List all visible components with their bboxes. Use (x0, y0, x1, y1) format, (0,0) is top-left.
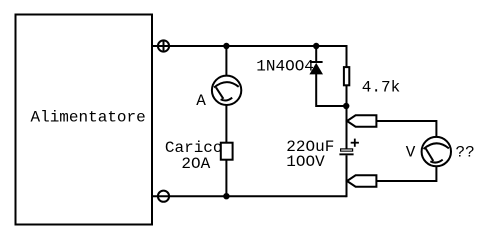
svg-text:1N4OO4: 1N4OO4 (256, 58, 314, 76)
connector tag bottom (to voltmeter -) (347, 175, 376, 186)
wire: bottom rail from - terminal to right riser (152, 195, 347, 197)
wire: ammeter to load (225, 105, 227, 143)
wire: ammeter branch top (rail to meter) (225, 46, 227, 76)
wire: diode branch from rail to cathode (315, 46, 317, 62)
node junction bottom rail / load branch (223, 193, 229, 199)
svg-text:1OOV: 1OOV (286, 153, 325, 171)
svg-text:4.7k: 4.7k (362, 79, 400, 97)
wire: bottom tag to voltmeter (376, 166, 436, 181)
diode D1 1N4004 triangle (anode below, pointing up) (309, 63, 323, 75)
terminal - (minus output of supply) (158, 191, 169, 202)
plus terminal vertical bar (163, 41, 165, 52)
terminal + (plus output of supply) (158, 40, 169, 51)
capacitor plus sign (351, 139, 359, 147)
wire: resistor bottom to node and down to capacitor (346, 85, 348, 149)
voltmeter M2 circle (422, 137, 451, 166)
wire: capacitor bottom down to bottom rail (346, 155, 348, 197)
voltmeter meter glyph (scale arc, needle, pivot arc) (424, 143, 449, 162)
resistor R1 4.7k box (344, 67, 349, 85)
node junction top rail / ammeter branch (223, 43, 229, 49)
svg-text:??: ?? (456, 144, 475, 162)
power supply box U1 Alimentatore (16, 15, 153, 225)
ammeter meter glyph (scale arc, needle, pivot arc) (214, 82, 239, 100)
wire: top rail from + terminal to right corner (152, 46, 347, 67)
node junction resistor/diode/cap (343, 103, 349, 109)
capacitor C1 positive plate (open box) (340, 148, 353, 151)
diode D1 1N4004 cathode bar (310, 61, 323, 63)
connector tag top (to voltmeter +) (347, 115, 376, 126)
svg-text:A: A (196, 92, 206, 110)
node junction top rail / diode branch (313, 43, 319, 49)
wire: diode anode down and over to node (316, 74, 346, 106)
ammeter M1 circle (212, 76, 241, 105)
svg-text:Alimentatore: Alimentatore (31, 108, 146, 126)
capacitor C1 negative plate (solid bar) (339, 153, 353, 155)
resistor RL load box (221, 143, 233, 160)
svg-text:2OA: 2OA (181, 155, 210, 173)
wire: top tag to voltmeter (376, 121, 436, 137)
wire: load to bottom rail (225, 161, 227, 197)
svg-text:V: V (406, 144, 416, 162)
